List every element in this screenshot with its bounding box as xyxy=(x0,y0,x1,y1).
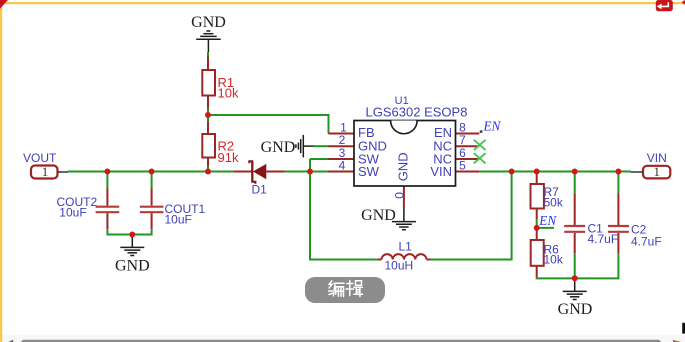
svg-text:VIN: VIN xyxy=(430,164,452,179)
svg-text:4.7uF: 4.7uF xyxy=(631,235,662,249)
svg-text:EN: EN xyxy=(538,213,557,228)
svg-text:VIN: VIN xyxy=(647,151,667,165)
svg-text:1: 1 xyxy=(654,164,661,179)
svg-text:GND: GND xyxy=(191,14,226,31)
svg-text:91k: 91k xyxy=(218,150,239,165)
svg-text:EN: EN xyxy=(483,119,502,134)
svg-text:4: 4 xyxy=(339,159,346,173)
svg-text:GND: GND xyxy=(261,139,296,156)
svg-text:50k: 50k xyxy=(544,195,564,209)
svg-text:VOUT: VOUT xyxy=(23,151,57,165)
svg-text:10k: 10k xyxy=(544,252,564,266)
svg-text:GND: GND xyxy=(115,257,150,274)
svg-text:L1: L1 xyxy=(399,239,413,253)
svg-text:SW: SW xyxy=(358,164,380,179)
svg-text:1: 1 xyxy=(42,164,49,179)
svg-text:10uH: 10uH xyxy=(385,258,414,272)
svg-text:LGS6302 ESOP8: LGS6302 ESOP8 xyxy=(366,105,468,120)
svg-text:GND: GND xyxy=(361,207,396,224)
svg-text:10uF: 10uF xyxy=(165,212,192,226)
svg-text:GND: GND xyxy=(558,301,593,318)
svg-text:0: 0 xyxy=(392,192,406,199)
svg-text:D1: D1 xyxy=(252,183,268,197)
svg-text:10k: 10k xyxy=(218,86,239,101)
svg-text:4.7uF: 4.7uF xyxy=(588,232,619,246)
svg-text:GND: GND xyxy=(396,152,411,181)
svg-text:10uF: 10uF xyxy=(59,205,86,219)
svg-text:5: 5 xyxy=(459,159,466,173)
